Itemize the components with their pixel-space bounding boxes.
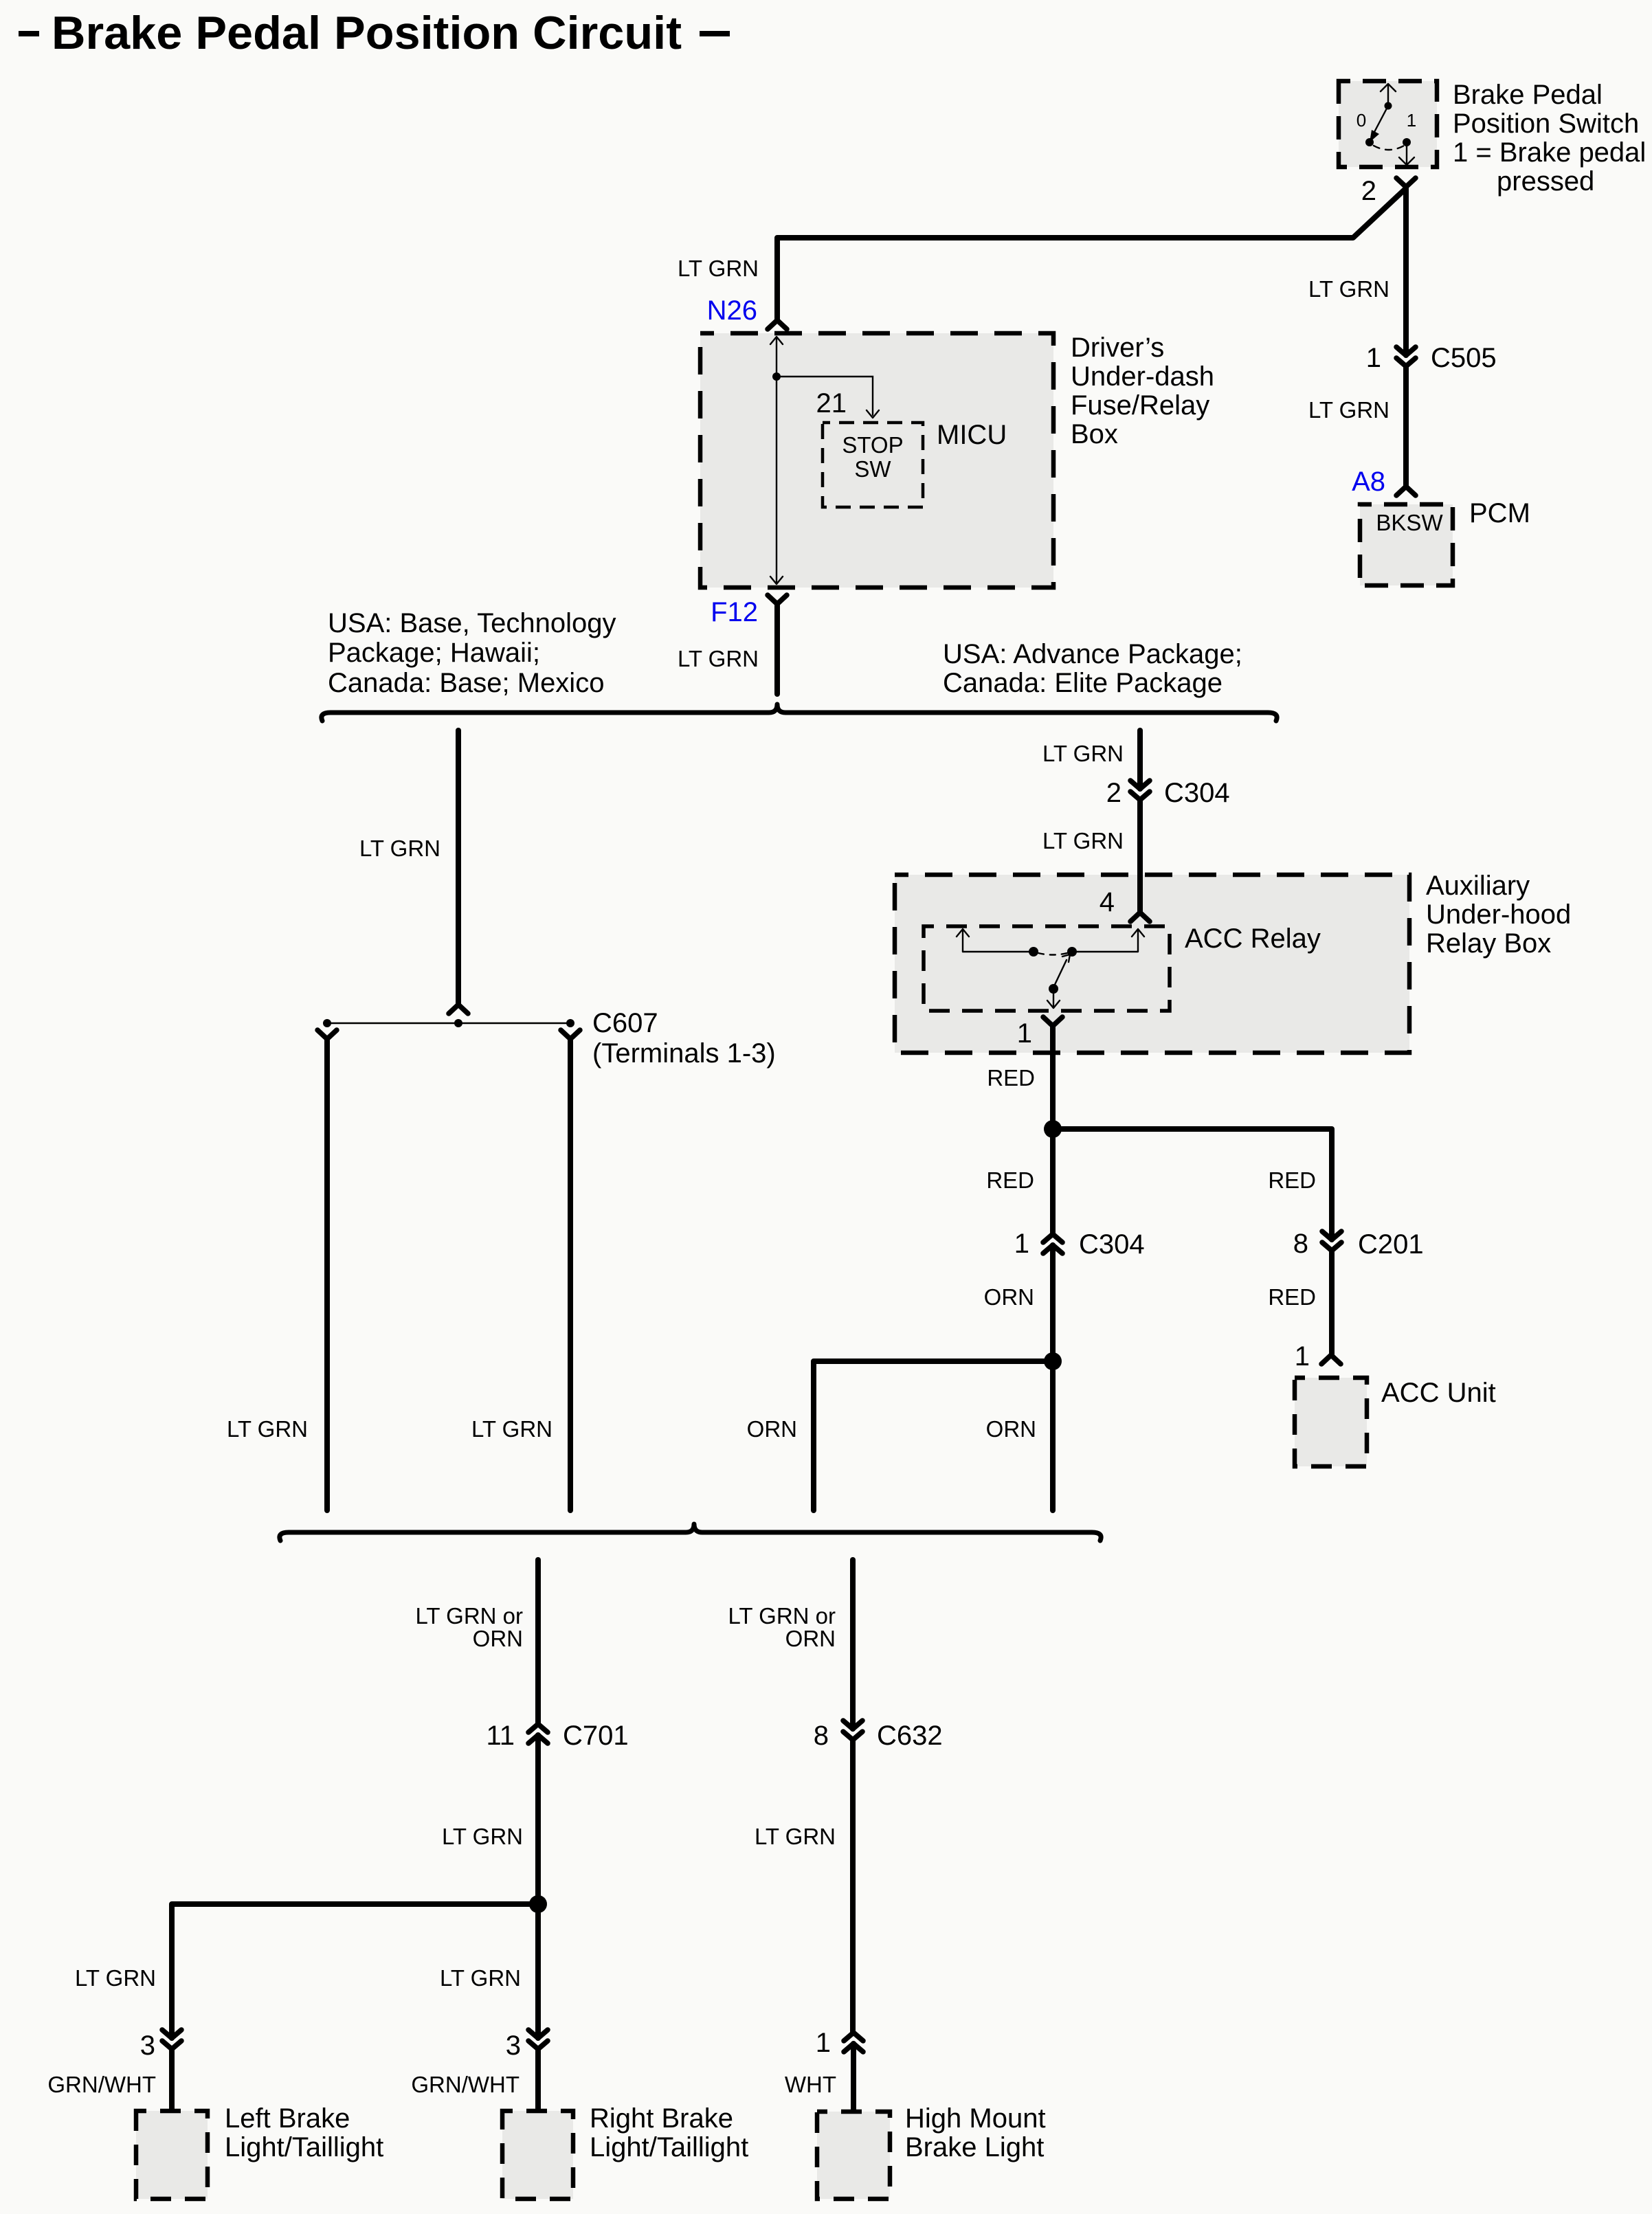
switch contact 1 <box>1403 138 1411 146</box>
right brake light box <box>502 2111 573 2199</box>
junction RED <box>1044 1120 1062 1138</box>
C607 node middle <box>454 1019 462 1027</box>
PCM box <box>1360 504 1453 585</box>
left brake light box <box>136 2111 208 2199</box>
svg-text:LT GRN: LT GRN <box>442 1824 523 1849</box>
svg-text:pressed: pressed <box>1497 166 1594 197</box>
relay arm pivot <box>1049 984 1058 994</box>
split brace upper <box>322 704 1277 721</box>
svg-text:Auxiliary: Auxiliary <box>1426 871 1530 901</box>
svg-text:Driver’s: Driver’s <box>1071 333 1164 363</box>
svg-text:LT GRN or: LT GRN or <box>728 1603 836 1629</box>
connector chevron F12 <box>768 595 787 604</box>
svg-text:1: 1 <box>1366 343 1381 373</box>
svg-text:21: 21 <box>816 388 847 418</box>
svg-text:STOP: STOP <box>842 432 903 458</box>
title dash right <box>700 31 730 36</box>
svg-text:Relay Box: Relay Box <box>1426 928 1551 959</box>
svg-text:RED: RED <box>1268 1167 1316 1193</box>
svg-text:LT GRN: LT GRN <box>471 1416 552 1442</box>
wire to right brake light box <box>535 2049 541 2111</box>
svg-text:8: 8 <box>814 1721 829 1751</box>
svg-text:RED: RED <box>986 1167 1034 1193</box>
svg-text:8: 8 <box>1293 1229 1308 1259</box>
wire split to C607 <box>456 730 461 1005</box>
svg-text:Brake Pedal: Brake Pedal <box>1453 80 1603 110</box>
wire junction to left brake <box>172 1904 538 2038</box>
svg-text:A8: A8 <box>1352 467 1385 497</box>
connector C304 upper <box>1130 781 1150 800</box>
connector high mount pin 1 <box>844 2033 863 2052</box>
C607 node left <box>323 1019 331 1027</box>
svg-text:Light/Taillight: Light/Taillight <box>225 2132 383 2162</box>
svg-text:Canada: Elite Package: Canada: Elite Package <box>943 668 1223 698</box>
svg-text:USA: Base, Technology: USA: Base, Technology <box>328 608 616 638</box>
svg-text:ORN: ORN <box>785 1626 836 1651</box>
brake pedal position switch box <box>1339 81 1437 167</box>
wire relay to junction <box>1050 1026 1056 1129</box>
wire C607 right down <box>568 1039 573 1510</box>
connector C632 <box>843 1721 862 1740</box>
svg-text:1: 1 <box>1407 110 1416 131</box>
connector C701 <box>528 1724 548 1743</box>
junction brake lights <box>529 1895 547 1913</box>
connector C505 <box>1396 347 1416 366</box>
svg-text:F12: F12 <box>711 597 758 627</box>
connector C201 <box>1322 1231 1341 1251</box>
svg-text:ORN: ORN <box>986 1416 1036 1442</box>
svg-text:LT GRN: LT GRN <box>1042 741 1124 766</box>
switch contact common <box>1385 102 1392 110</box>
svg-text:(Terminals 1-3): (Terminals 1-3) <box>592 1038 776 1069</box>
wire junction to C304 lower <box>1050 1129 1056 1234</box>
svg-text:ORN: ORN <box>984 1284 1034 1310</box>
svg-text:PCM: PCM <box>1469 498 1530 528</box>
svg-text:C632: C632 <box>877 1721 943 1751</box>
MICU internal bus arrow (double-headed) <box>770 337 783 584</box>
connector chevron C607 left <box>317 1030 337 1039</box>
relay switch arm <box>1053 954 1070 987</box>
svg-text:WHT: WHT <box>785 2072 836 2097</box>
svg-text:LT GRN: LT GRN <box>1042 828 1124 853</box>
split brace lower <box>280 1524 1101 1541</box>
connector chevron C607 right <box>561 1030 580 1039</box>
switch travel dashed arc <box>1374 146 1404 150</box>
svg-text:LT GRN: LT GRN <box>1308 276 1389 302</box>
wire to left brake light box <box>169 2049 175 2111</box>
svg-text:1 = Brake pedal: 1 = Brake pedal <box>1453 137 1646 168</box>
wire switch to MICU (horizontal) <box>777 188 1406 320</box>
relay contact left <box>1029 947 1038 957</box>
relay line to pin4 arrow <box>1072 929 1144 952</box>
svg-text:Right Brake: Right Brake <box>590 2103 733 2134</box>
svg-text:C304: C304 <box>1164 778 1230 808</box>
wire C304 lower to ORN junction <box>1050 1245 1056 1361</box>
svg-text:2: 2 <box>1361 176 1376 206</box>
svg-text:1: 1 <box>816 2028 831 2058</box>
svg-text:1: 1 <box>1295 1341 1310 1372</box>
relay coil arrow left <box>957 929 969 952</box>
svg-text:C607: C607 <box>592 1008 658 1038</box>
ACC unit box <box>1295 1378 1367 1466</box>
wire C632 to high mount <box>850 1740 856 2033</box>
svg-text:C304: C304 <box>1079 1229 1145 1260</box>
MICU internal junction <box>772 372 781 381</box>
svg-text:C701: C701 <box>563 1721 629 1751</box>
svg-text:LT GRN: LT GRN <box>440 1965 521 1991</box>
connector right brake pin 3 <box>528 2030 548 2049</box>
connector left brake pin 3 <box>162 2030 181 2049</box>
junction ORN <box>1044 1352 1062 1370</box>
svg-text:Under-dash: Under-dash <box>1071 361 1214 392</box>
wire brace to C632 <box>850 1560 856 1729</box>
auxiliary under-hood relay box <box>895 875 1409 1053</box>
connector chevron C607 top <box>449 1005 468 1014</box>
svg-text:C201: C201 <box>1358 1229 1424 1260</box>
svg-text:Under-hood: Under-hood <box>1426 899 1571 930</box>
svg-text:ORN: ORN <box>747 1416 797 1442</box>
svg-text:0: 0 <box>1357 110 1366 131</box>
C607 node right <box>566 1019 574 1027</box>
switch arrow in (top) <box>1381 84 1396 106</box>
svg-text:N26: N26 <box>707 295 757 326</box>
svg-text:LT GRN: LT GRN <box>359 836 440 861</box>
svg-text:LT GRN: LT GRN <box>755 1824 836 1849</box>
svg-text:Package; Hawaii;: Package; Hawaii; <box>328 638 540 668</box>
switch arrow out (bottom) <box>1399 142 1414 165</box>
svg-text:LT GRN: LT GRN <box>75 1965 156 1991</box>
wire ORN down <box>1050 1361 1056 1510</box>
connector chevron relay pin 1 <box>1043 1017 1062 1026</box>
switch arm with arrowhead <box>1374 106 1388 132</box>
svg-text:SW: SW <box>854 456 891 482</box>
relay contact right <box>1067 947 1077 957</box>
svg-text:LT GRN: LT GRN <box>1308 397 1389 423</box>
svg-text:3: 3 <box>506 2031 521 2061</box>
svg-text:1: 1 <box>1014 1229 1029 1259</box>
wire split to C304 <box>1137 730 1143 789</box>
wire C607 left down <box>324 1039 330 1510</box>
svg-text:ORN: ORN <box>473 1626 523 1651</box>
connector chevron pin 2 <box>1396 178 1416 187</box>
connector chevron A8 <box>1396 487 1416 495</box>
svg-text:RED: RED <box>1268 1284 1316 1310</box>
svg-text:Left Brake: Left Brake <box>225 2103 350 2134</box>
switch contact 0 <box>1365 138 1374 146</box>
svg-text:C505: C505 <box>1431 343 1497 373</box>
relay arm to pin1 arrow <box>1047 989 1060 1008</box>
wire C304 to relay <box>1137 800 1143 913</box>
relay dashed link <box>1038 953 1067 955</box>
svg-text:11: 11 <box>486 1721 515 1751</box>
relay coil line <box>963 951 1034 952</box>
svg-text:GRN/WHT: GRN/WHT <box>411 2072 520 2097</box>
C607 junction bar <box>327 1022 570 1024</box>
svg-text:Brake Pedal Position Circuit: Brake Pedal Position Circuit <box>52 7 682 59</box>
wire C505 to PCM <box>1403 366 1409 487</box>
MICU internal branch to STOP SW fuse <box>777 377 879 418</box>
wire junction to C201 branch <box>1053 1129 1332 1240</box>
connector chevron ACC unit <box>1321 1355 1341 1364</box>
connector C304 lower <box>1043 1234 1062 1253</box>
wire ORN branch left <box>814 1361 1053 1510</box>
wire C701 to junction <box>535 1735 541 2038</box>
svg-text:High Mount: High Mount <box>905 2103 1046 2134</box>
wire to high mount box <box>851 2044 856 2112</box>
svg-text:LT GRN: LT GRN <box>678 256 759 281</box>
svg-text:1: 1 <box>1017 1018 1032 1049</box>
svg-text:ACC Unit: ACC Unit <box>1381 1378 1496 1408</box>
svg-text:4: 4 <box>1100 887 1115 917</box>
svg-text:BKSW: BKSW <box>1376 510 1443 535</box>
svg-text:Box: Box <box>1071 419 1118 449</box>
wire brace to C701 <box>535 1560 541 1724</box>
svg-text:MICU: MICU <box>937 420 1007 450</box>
svg-text:Light/Taillight: Light/Taillight <box>590 2132 748 2162</box>
svg-text:LT GRN or: LT GRN or <box>416 1603 523 1629</box>
connector chevron N26 <box>768 320 787 329</box>
high mount brake light box <box>817 2112 890 2199</box>
title dash left <box>19 31 39 36</box>
svg-text:Position Switch: Position Switch <box>1453 109 1639 139</box>
STOP SW fuse box <box>823 423 923 507</box>
svg-text:GRN/WHT: GRN/WHT <box>47 2072 156 2097</box>
ACC relay inner box <box>924 926 1170 1011</box>
svg-text:Brake Light: Brake Light <box>905 2132 1044 2162</box>
connector chevron pin 4 <box>1130 913 1150 921</box>
svg-text:ACC Relay: ACC Relay <box>1185 924 1321 954</box>
svg-text:Canada: Base; Mexico: Canada: Base; Mexico <box>328 668 604 698</box>
svg-text:USA: Advance Package;: USA: Advance Package; <box>943 639 1242 669</box>
svg-text:Fuse/Relay: Fuse/Relay <box>1071 390 1209 421</box>
svg-text:3: 3 <box>140 2031 155 2061</box>
svg-text:RED: RED <box>987 1065 1035 1091</box>
wire switch to C505 <box>1403 188 1409 355</box>
driver's under-dash fuse/relay box <box>700 333 1053 588</box>
wire F12 to split <box>774 604 780 694</box>
svg-text:LT GRN: LT GRN <box>227 1416 308 1442</box>
svg-text:LT GRN: LT GRN <box>678 646 759 671</box>
svg-text:2: 2 <box>1106 778 1121 808</box>
wire C201 to ACC unit <box>1329 1251 1335 1355</box>
